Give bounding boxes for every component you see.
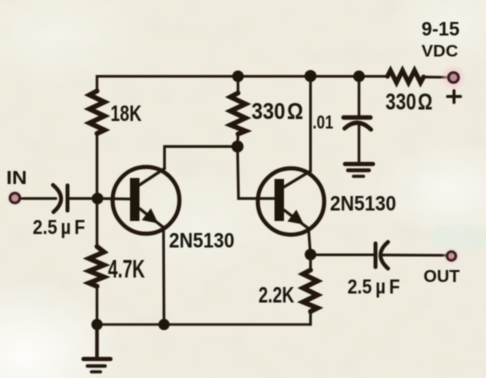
transistor Q1 2N5130 (113, 167, 180, 234)
node: emitter-rail junction (158, 319, 169, 330)
terminal VDC positive (441, 65, 467, 91)
svg-text:VDC: VDC (422, 41, 459, 61)
svg-text:9-15: 9-15 (422, 20, 460, 41)
svg-text:2.5 µ F: 2.5 µ F (348, 275, 400, 297)
wire: rail to VDC terminal (424, 76, 448, 79)
wire: output node to C3 (311, 253, 375, 256)
svg-text:2.5 µ F: 2.5 µ F (33, 216, 85, 238)
resistor R5 330 ohm supply (388, 71, 424, 83)
label 2.5uF input (33, 216, 85, 238)
svg-text:2N5130: 2N5130 (330, 193, 396, 216)
resistor R1 18K (90, 91, 105, 134)
svg-text:18K: 18K (111, 102, 142, 127)
capacitor C3 2.5uF output (376, 242, 389, 269)
label 18K (111, 102, 142, 127)
wire: collector node down to Q2 base (238, 147, 275, 199)
node: collector junction (232, 141, 244, 153)
wire: top supply rail (97, 76, 388, 91)
label .01 (313, 112, 334, 133)
svg-text:330 Ω: 330 Ω (386, 90, 433, 115)
label 330 ohm left (252, 98, 304, 125)
label 9-15 (422, 20, 460, 41)
label VDC (422, 41, 459, 61)
wire: Q2 collector to top rail (309, 76, 312, 171)
resistor R3 330ohm collector load (231, 76, 246, 146)
ground G1 (84, 325, 111, 372)
label 2N5130 Q2 (330, 193, 396, 216)
svg-text:.01: .01 (313, 112, 334, 133)
wire: 4.7K to bottom rail (96, 286, 99, 324)
label plus sign (448, 91, 461, 103)
label OUT (424, 266, 460, 286)
capacitor C1 2.5uF input (53, 185, 68, 212)
capacitor C2 .01 bypass (344, 76, 372, 162)
label 2N5130 Q1 (169, 230, 234, 253)
wire: left column 18K to 4.7K (96, 134, 99, 247)
terminal IN (6, 189, 24, 207)
node: rail junction Q2 collector (305, 70, 317, 82)
node: ground-rail junction (91, 319, 102, 330)
wire: Q1 collector up and right to node (165, 147, 238, 169)
label 4.7K (108, 254, 145, 283)
svg-text:4.7K: 4.7K (108, 254, 145, 283)
wire: C1 to Q1 base node (70, 197, 98, 200)
node: rail junction C2 (353, 71, 365, 83)
label 330 ohm right (386, 90, 433, 115)
label 2.2K (259, 283, 295, 308)
wire: Q2 emitter down to output node (309, 229, 311, 255)
svg-text:330 Ω: 330 Ω (252, 98, 304, 125)
svg-text:2N5130: 2N5130 (169, 230, 234, 253)
wire: Q1 emitter to bottom rail (162, 227, 165, 325)
label IN (6, 168, 27, 189)
svg-text:OUT: OUT (424, 266, 460, 286)
node: Q1 base junction (92, 193, 104, 205)
resistor R4 2.2K (303, 255, 318, 325)
wire: C3 to OUT terminal (383, 254, 446, 257)
node: emitter output junction (305, 249, 317, 261)
svg-text:IN: IN (6, 168, 27, 189)
wire: bottom rail (97, 323, 311, 326)
transistor Q2 2N5130 (258, 168, 324, 234)
svg-text:2.2K: 2.2K (259, 283, 295, 308)
resistor R2 4.7K (89, 247, 104, 287)
node: rail junction R3 (232, 71, 244, 83)
ground G2 (345, 164, 373, 176)
wire: base node to Q1 base (98, 197, 131, 200)
wire: IN terminal to C1 (21, 197, 56, 200)
label 2.5uF output (348, 275, 400, 297)
terminal OUT (442, 247, 460, 265)
